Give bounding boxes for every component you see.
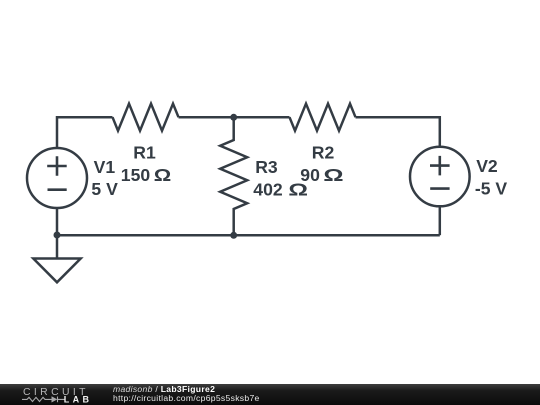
node bottom junction	[230, 232, 237, 239]
wire bottom rail	[57, 234, 440, 237]
node ground junction	[54, 232, 61, 239]
svg-text:Ω: Ω	[323, 165, 343, 185]
wire V1 bottom	[56, 208, 59, 235]
logo schematic line with resistor and diode	[22, 397, 65, 403]
svg-text:R2: R2	[312, 143, 335, 163]
svg-text:402: 402	[253, 179, 283, 199]
logo diode triangle	[52, 396, 58, 402]
resistor R2	[290, 104, 356, 131]
value 90 Ohm	[300, 165, 343, 185]
wire V2 bottom	[439, 206, 442, 235]
svg-text:150: 150	[121, 165, 151, 185]
footer bar	[0, 384, 540, 405]
voltage source V1	[27, 148, 87, 208]
wire R2 to V2 top	[356, 117, 440, 147]
resistor R1	[113, 104, 179, 131]
resistor R3	[220, 117, 247, 235]
svg-text:5 V: 5 V	[91, 179, 118, 199]
wire node A to R2	[234, 116, 290, 119]
svg-text:http://circuitlab.com/cp6p5s5s: http://circuitlab.com/cp6p5s5sksb7e	[113, 393, 260, 403]
svg-text:90: 90	[300, 165, 320, 185]
svg-text:-5 V: -5 V	[475, 178, 508, 198]
ground	[33, 235, 80, 282]
svg-text:R3: R3	[255, 157, 278, 177]
voltage source V2	[410, 147, 470, 207]
svg-text:V1: V1	[94, 157, 116, 177]
wire R1 to node A	[179, 116, 234, 119]
svg-text:R1: R1	[133, 143, 156, 163]
svg-text:V2: V2	[476, 156, 498, 176]
svg-text:Ω: Ω	[154, 166, 172, 186]
value 150 Ohm	[121, 165, 172, 185]
node A (top junction)	[230, 114, 237, 121]
wire top-left (V1 top to R1)	[57, 117, 113, 148]
value 402 Ohm	[253, 179, 308, 199]
svg-text:LAB: LAB	[64, 394, 90, 404]
